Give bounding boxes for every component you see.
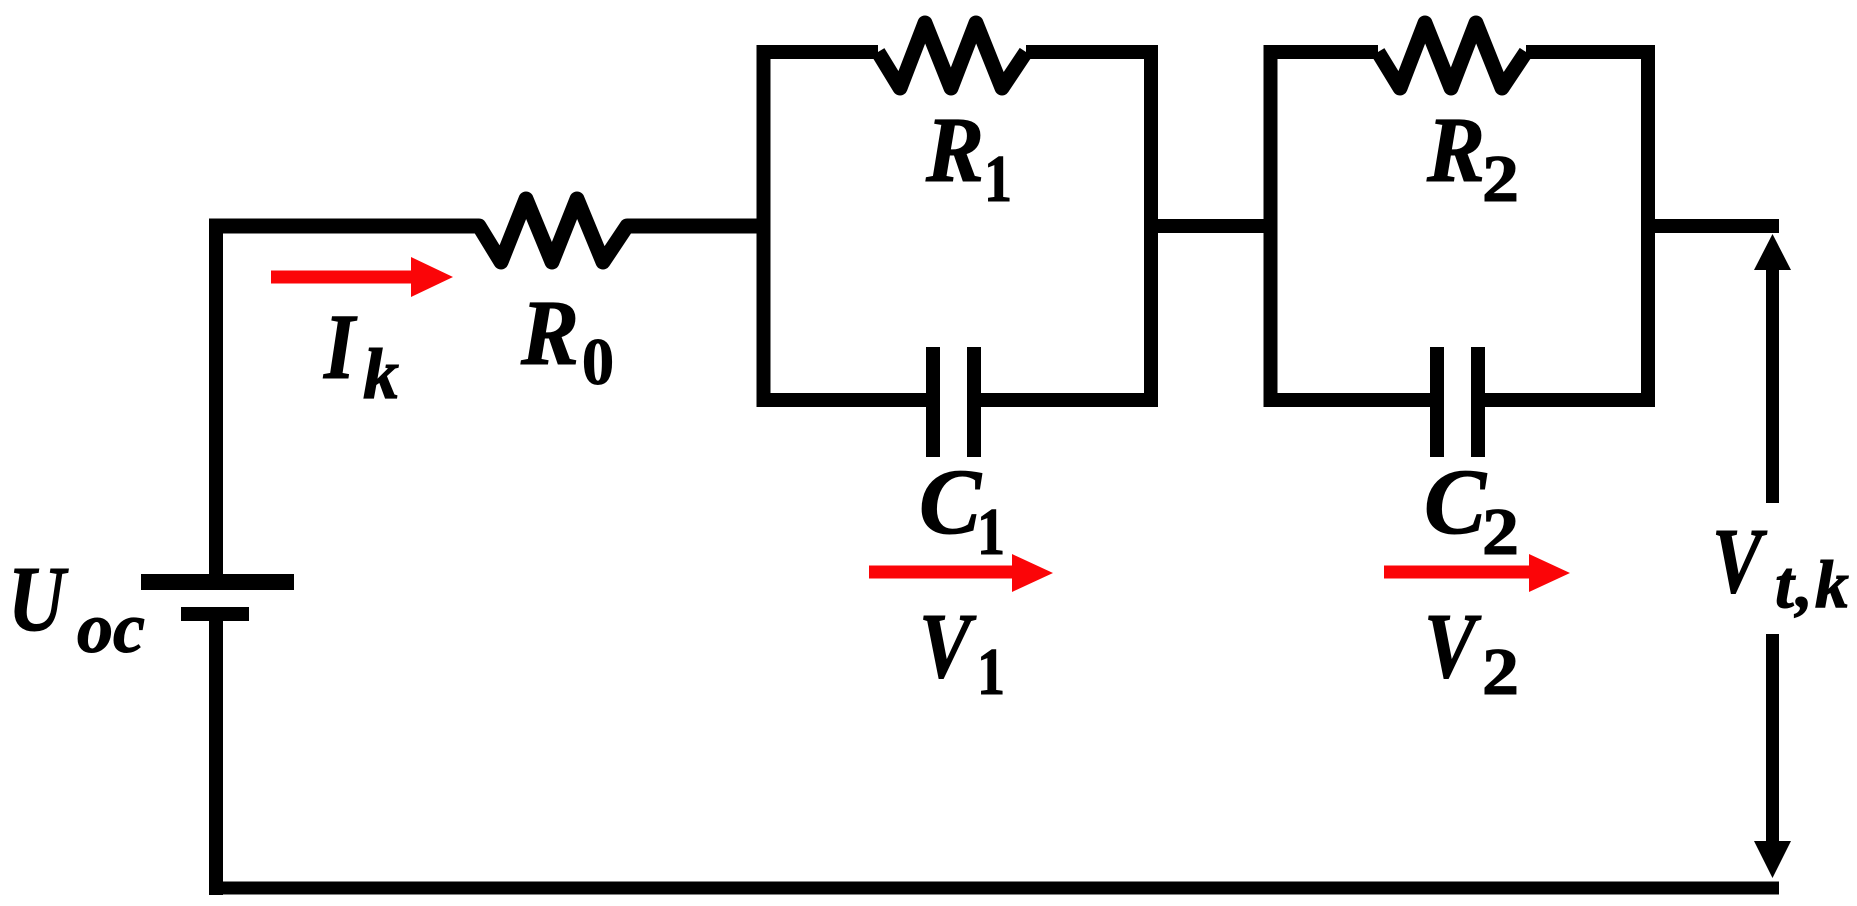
- current arrow I_k (red) head: [411, 257, 453, 297]
- svg-text:2: 2: [1482, 635, 1519, 709]
- svg-text:C: C: [919, 451, 982, 554]
- current arrow I_k (red) shaft: [271, 271, 418, 284]
- svg-text:V: V: [919, 595, 977, 698]
- voltage source U_oc battery short plate: [181, 607, 249, 621]
- wire: left vertical from top-left corner down to battery top plate: [209, 219, 223, 578]
- svg-text:oc: oc: [77, 588, 145, 668]
- voltage source U_oc battery long plate: [141, 574, 294, 590]
- svg-text:V: V: [1424, 595, 1482, 698]
- wire: from box2 to output node: [1641, 219, 1779, 233]
- wire: bottom horizontal wire: [209, 882, 1779, 895]
- output voltage V_t,k arrow lower shaft: [1766, 634, 1779, 843]
- svg-text:1: 1: [977, 495, 1005, 569]
- svg-text:C: C: [1424, 451, 1487, 554]
- svg-text:1: 1: [984, 142, 1012, 216]
- svg-text:k: k: [363, 334, 399, 414]
- svg-text:0: 0: [582, 325, 614, 399]
- wire: between box1 and box2: [1144, 219, 1277, 233]
- RC branch box 2 left/bottom portion: [1271, 52, 1431, 400]
- output voltage V_t,k arrow down head: [1754, 841, 1791, 878]
- output voltage V_t,k arrow upper shaft: [1766, 266, 1779, 503]
- arrow V1 (red) head: [1012, 554, 1053, 592]
- svg-text:U: U: [8, 548, 69, 651]
- wire: top wire from corner with resistor R0 zigzag to box1: [209, 199, 770, 262]
- svg-text:I: I: [323, 296, 357, 399]
- svg-text:1: 1: [977, 635, 1005, 709]
- svg-text:t,k: t,k: [1775, 546, 1851, 622]
- wire: left vertical from battery short plate down to bottom-left corner: [209, 614, 223, 895]
- arrow V2 (red) head: [1529, 554, 1570, 592]
- output voltage V_t,k arrow up head: [1754, 234, 1791, 270]
- svg-text:V: V: [1712, 510, 1768, 613]
- RC branch box 1 left/bottom portion: [764, 52, 927, 400]
- RC branch box 1 right/top portion: [981, 52, 1151, 400]
- svg-text:R: R: [1426, 99, 1485, 202]
- capacitor C2 left plate: [1430, 347, 1444, 457]
- arrow V2 (red) shaft: [1384, 566, 1534, 579]
- arrow V1 (red) shaft: [869, 566, 1019, 579]
- capacitor C2 right plate: [1471, 347, 1485, 457]
- capacitor C1 left plate: [926, 347, 940, 457]
- svg-text:2: 2: [1482, 495, 1519, 569]
- resistor R1 zigzag on box1 top edge: [878, 23, 1026, 88]
- capacitor C1 right plate: [967, 347, 981, 457]
- RC branch box 2 right/top portion: [1485, 52, 1648, 400]
- svg-text:2: 2: [1482, 142, 1519, 216]
- svg-text:R: R: [925, 99, 984, 202]
- svg-text:R: R: [520, 282, 579, 385]
- resistor R2 zigzag on box2 top edge: [1378, 23, 1526, 88]
